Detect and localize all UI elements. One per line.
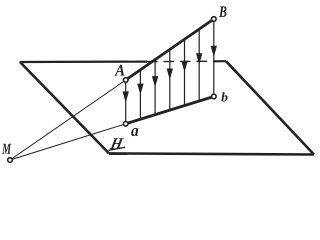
- label A: [114, 65, 124, 76]
- thick segment A-B: [126, 19, 214, 80]
- right edge: [226, 61, 314, 154]
- label b: [221, 92, 227, 101]
- thin line M to A: [10, 80, 126, 160]
- label H: [110, 138, 124, 149]
- top edge solid right part: [214, 60, 226, 62]
- projector arrows: [123, 19, 216, 124]
- label M: [2, 144, 11, 154]
- node B: [212, 17, 217, 22]
- projector 6: [198, 29, 200, 101]
- thick segment a-b: [126, 97, 214, 124]
- projector 3: [154, 60, 156, 116]
- plane H parallelogram outline: [20, 61, 314, 154]
- node A: [123, 78, 128, 83]
- projector 5: [184, 39, 186, 106]
- underline of label H: [109, 147, 126, 150]
- left edge: [20, 62, 109, 153]
- projector from B to b: [213, 19, 215, 97]
- bottom edge: [109, 153, 314, 154]
- label a: [131, 128, 138, 136]
- projector 2: [139, 70, 141, 120]
- projector 4: [169, 49, 171, 110]
- top edge dashed (hidden behind trapezoid): [147, 60, 214, 62]
- thin line M to a: [10, 124, 126, 160]
- point circles: [8, 17, 216, 163]
- projector from A to a: [125, 80, 127, 124]
- top edge solid left part: [20, 60, 147, 63]
- node b: [212, 94, 217, 99]
- node a: [123, 122, 128, 127]
- label B: [219, 6, 227, 16]
- node M: [8, 158, 13, 163]
